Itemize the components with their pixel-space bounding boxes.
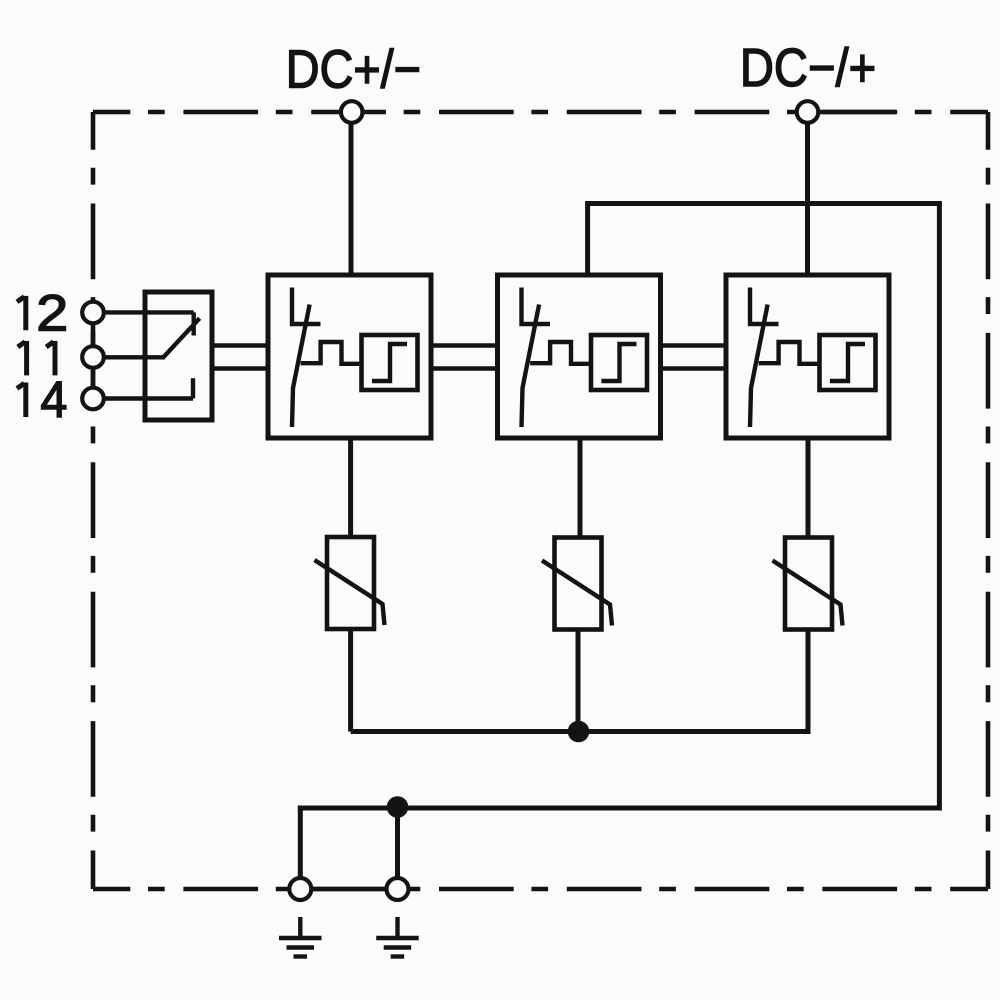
dash-dot enclosure border: left edge: [91, 112, 96, 889]
F2 disconnector lead with T-bar: [522, 288, 551, 325]
wire: border stub at terminal DC-/+: [820, 110, 896, 115]
earth terminal 1: [289, 878, 311, 900]
F3 trigger device box: [820, 335, 876, 390]
pin label 11: [18, 341, 55, 375]
surge module F2: outer box: [498, 275, 661, 438]
mechanical link bus: F2 to F3 (lower line): [661, 366, 727, 371]
wire: terminal DC+/- down to module F1: [349, 112, 354, 275]
wire: F3 bottom to varistor RV3: [806, 438, 811, 538]
terminal DC+/-: [341, 101, 363, 123]
mechanical link bus: S1 to F1 (lower line): [212, 366, 268, 371]
junction dot on common node: [568, 721, 590, 743]
wire: F2 bottom to varistor RV2: [578, 438, 583, 538]
dash-dot enclosure border: top edge: [93, 110, 988, 115]
earth symbol 2: [376, 917, 419, 957]
F1 spark-gap electrode (square wave): [301, 342, 362, 364]
wire: link between terminals 12-11-14 on left border: [91, 300, 96, 411]
svg-text:DC+/−: DC+/−: [286, 38, 421, 99]
wire: RV2 bottom to common node: [576, 630, 581, 732]
F1 trigger device box: [362, 335, 418, 390]
F1 trigger threshold characteristic: [372, 344, 407, 381]
pin label 12: [17, 296, 26, 330]
mechanical link bus: F2 to F3 (upper line): [661, 343, 727, 348]
dash-dot enclosure border: bottom edge: [93, 887, 988, 892]
F2 trigger threshold characteristic: [601, 344, 636, 381]
varistor RV2: body: [555, 538, 602, 630]
F2 spark-gap electrode (square wave): [530, 342, 591, 364]
svg-text:2: 2: [36, 284, 68, 341]
varistor RV2: strike-through with tail: [542, 561, 612, 626]
terminal DC-/+: [797, 101, 819, 123]
terminal 11: [82, 346, 104, 368]
terminal 14: [82, 388, 104, 410]
wire: terminal 12 to signalling contact: [93, 310, 194, 314]
wire: junction to earth terminal 2: [395, 808, 400, 877]
F3 disconnector lead with T-bar: [750, 288, 779, 325]
mechanical link bus: S1 to F1 (upper line): [212, 343, 268, 348]
mechanical link bus: F1 to F2 (upper line): [431, 343, 498, 348]
earth symbol 1: [279, 917, 322, 957]
mechanical link bus: F1 to F2 (lower line): [431, 366, 498, 371]
svg-text:DC−/+: DC−/+: [740, 37, 876, 98]
varistor RV1: strike-through with tail: [315, 560, 385, 625]
F1 disconnector lead with T-bar: [292, 288, 321, 325]
junction dot on earth bus: [387, 796, 409, 818]
F1 disconnector blade (diagonal): [292, 305, 310, 428]
S1 fixed contact 14 (L-shape): [191, 378, 195, 398]
F3 spark-gap electrode (square wave): [759, 342, 820, 364]
remote signalling changeover contact S1: box: [145, 292, 212, 420]
earth terminal 2: [387, 878, 409, 900]
varistor RV3: strike-through with tail: [773, 561, 843, 626]
wire: common node rail: [351, 630, 808, 732]
varistor RV3: body: [785, 538, 832, 630]
F2 trigger device box: [591, 335, 647, 390]
surge module F3: outer box: [726, 275, 889, 438]
F3 disconnector blade (diagonal): [750, 305, 768, 428]
S1 moving contact arm: [162, 318, 199, 358]
F3 trigger threshold characteristic: [830, 344, 865, 381]
svg-text:4: 4: [40, 371, 67, 428]
wire: RV1 bottom to common node: [348, 629, 353, 732]
S1 fixed contact 12 (L-shape): [191, 312, 195, 335]
terminal 12: [82, 302, 104, 324]
wire: terminal DC-/+ down to module F3: [805, 112, 810, 275]
wire: link between earth terminals on bottom border: [300, 887, 397, 892]
wire: terminal 11 to signalling contact: [93, 355, 163, 359]
wire: terminal 14 to signalling contact: [93, 396, 193, 400]
wire: module F2 top branch around right side to earth bus: [300, 204, 939, 878]
F2 disconnector blade (diagonal): [522, 305, 540, 428]
varistor RV1: body: [327, 537, 374, 629]
wire: F1 bottom to varistor RV1: [348, 438, 353, 537]
surge module F1: outer box: [268, 275, 431, 438]
dash-dot enclosure border: right edge: [986, 112, 991, 889]
pin label 14: [17, 383, 26, 418]
